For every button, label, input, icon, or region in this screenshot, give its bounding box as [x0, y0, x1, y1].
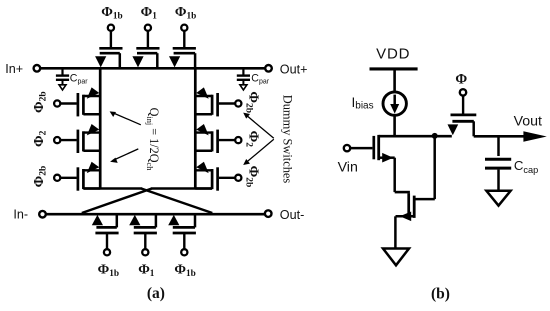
svg-text:Out+: Out+	[280, 63, 308, 77]
transistor M5 (bottom row middle)	[134, 232, 157, 235]
svg-text:Φ1: Φ1	[141, 5, 158, 22]
wire Ibias to node A	[393, 115, 396, 136]
svg-text:VDD: VDD	[376, 46, 410, 63]
svg-text:Φ2b: Φ2b	[244, 91, 261, 113]
wire right column to cross	[151, 187, 212, 190]
svg-text:Out-: Out-	[280, 208, 305, 222]
node Out- terminal	[265, 210, 272, 217]
wire left column rail	[99, 68, 102, 189]
wire In- to Out- rail	[46, 213, 265, 216]
svg-text:Qinj = 1/2Qch: Qinj = 1/2Qch	[145, 108, 161, 172]
transistor M1 (top row left)	[99, 47, 122, 50]
svg-text:Dummy Switches: Dummy Switches	[281, 95, 295, 184]
arrow Vout	[523, 131, 546, 142]
svg-text:Φ1b: Φ1b	[174, 262, 195, 279]
node Out+ terminal	[265, 65, 272, 72]
transistor M2 (top row middle)	[136, 47, 159, 50]
transistor Q2	[407, 193, 410, 215]
svg-text:Φ2b: Φ2b	[32, 91, 49, 113]
svg-text:Ibias: Ibias	[352, 95, 374, 111]
wire left column to cross	[83, 187, 142, 190]
svg-text:Cpar: Cpar	[251, 72, 269, 85]
wire cross diagonal left-down	[141, 189, 212, 214]
ground below Q2	[383, 249, 409, 266]
svg-text:Φ1b: Φ1b	[175, 5, 196, 22]
arrow annotation dummy lower	[246, 139, 274, 163]
transistor dummy DL2	[77, 130, 80, 153]
transistor Q3 switch	[460, 89, 466, 95]
svg-text:Φ2: Φ2	[244, 131, 261, 148]
transistor dummy DL3	[77, 167, 80, 190]
current source Ibias	[383, 92, 406, 115]
node In+ terminal	[34, 65, 41, 72]
wire right column rail	[194, 68, 197, 189]
junction node A dot	[432, 133, 438, 139]
wire VDD to Ibias	[393, 70, 396, 92]
transistor dummy DR1	[216, 93, 219, 116]
svg-text:Φ1: Φ1	[138, 262, 155, 279]
capacitor Cpar left	[61, 69, 63, 75]
power VDD bar	[370, 67, 418, 70]
svg-text:Vout: Vout	[514, 113, 542, 129]
wire Vout	[474, 135, 525, 138]
svg-text:Φ2: Φ2	[32, 130, 49, 147]
svg-text:(b): (b)	[431, 285, 450, 302]
transistor Q1 input	[372, 136, 375, 159]
ground below Ccap	[486, 191, 510, 206]
arrow annotation dummy upper	[246, 115, 274, 139]
svg-text:Vin: Vin	[338, 160, 358, 176]
wire In+ to Out+ rail	[40, 67, 265, 70]
node Vin terminal	[344, 145, 350, 151]
svg-text:Φ: Φ	[455, 72, 467, 88]
transistor M3 (top row right)	[173, 47, 196, 50]
svg-text:Φ2b: Φ2b	[32, 166, 49, 188]
svg-text:Φ1b: Φ1b	[98, 262, 119, 279]
arrow annotation to DL upper	[113, 113, 141, 125]
svg-text:Φ2b: Φ2b	[244, 166, 261, 188]
capacitor Ccap	[497, 136, 500, 156]
arrow annotation to DL lower	[113, 149, 138, 161]
wire cross diagonal right-down	[82, 189, 152, 214]
svg-text:(a): (a)	[147, 285, 165, 302]
transistor M4 (bottom row left)	[95, 232, 118, 235]
transistor dummy DR3	[216, 167, 219, 190]
svg-text:Φ1b: Φ1b	[101, 5, 122, 22]
svg-text:In-: In-	[13, 207, 28, 221]
svg-text:Ccap: Ccap	[514, 158, 538, 175]
capacitor Cpar right	[242, 69, 244, 75]
transistor dummy DR2	[216, 130, 219, 153]
node In- terminal	[39, 211, 46, 218]
svg-text:In+: In+	[5, 62, 23, 76]
transistor dummy DL1	[77, 93, 80, 116]
transistor M6 (bottom row right)	[173, 232, 196, 235]
svg-text:Cpar: Cpar	[70, 72, 88, 85]
wire node A horizontal	[379, 135, 452, 138]
